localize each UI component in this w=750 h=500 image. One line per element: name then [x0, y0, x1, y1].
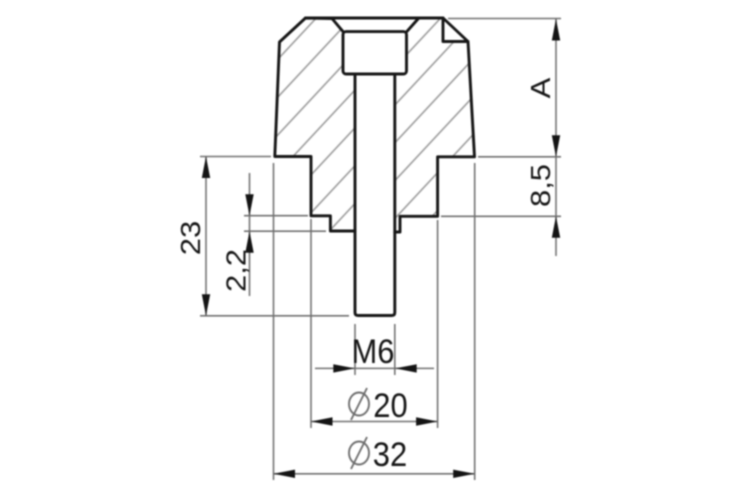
- svg-text:32: 32: [373, 436, 407, 474]
- svg-text:M6: M6: [352, 333, 395, 371]
- svg-text:8,5: 8,5: [525, 164, 556, 207]
- svg-text:23: 23: [175, 221, 206, 255]
- svg-text:A: A: [525, 77, 556, 98]
- svg-text:2,2: 2,2: [221, 249, 252, 292]
- svg-text:20: 20: [373, 387, 407, 425]
